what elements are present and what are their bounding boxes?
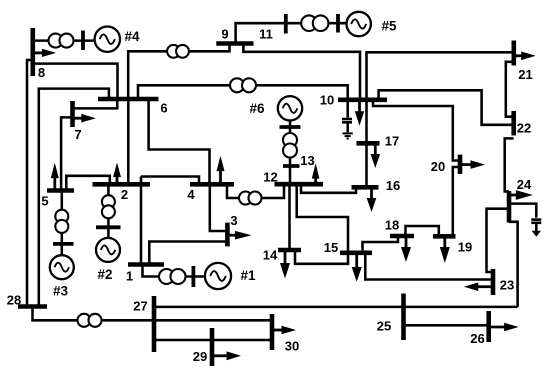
generator #4 [95, 27, 140, 52]
wire 10-17 [365, 100, 368, 144]
svg-text:#3: #3 [53, 284, 69, 299]
load arrow bus 29 [212, 351, 241, 360]
bus 17 [357, 134, 400, 149]
wire 2 to generator 2 [107, 184, 110, 238]
bus 4 [187, 184, 234, 202]
svg-text:17: 17 [385, 134, 399, 149]
svg-text:20: 20 [431, 159, 445, 174]
wire 25-27 [154, 306, 518, 309]
load arrow bus 21 [514, 52, 536, 61]
load arrow bus 30 [272, 326, 296, 335]
wire 27-29 [154, 339, 212, 342]
svg-text:3: 3 [230, 213, 237, 228]
ground bus 10 [343, 133, 353, 138]
svg-text:26: 26 [470, 331, 484, 346]
load arrow bus 24 [509, 190, 533, 200]
wire 9-10 [243, 44, 360, 100]
bus 27 [133, 296, 154, 352]
bus 9 [216, 27, 253, 44]
bus 22 [514, 111, 532, 136]
wire 6-7 [73, 99, 118, 108]
generator #6 [249, 96, 302, 120]
bus 10 [320, 93, 387, 108]
bus 18 [385, 218, 414, 236]
wire 22-24 [505, 138, 514, 191]
svg-text:9: 9 [221, 27, 228, 42]
wire 10-22 [379, 90, 514, 125]
transformer 5-#3 [53, 210, 74, 244]
svg-text:13: 13 [300, 153, 314, 168]
svg-text:29: 29 [193, 349, 207, 364]
bus 15 [324, 240, 372, 255]
bus 12 [263, 170, 323, 185]
load arrow bus 16 [367, 189, 377, 212]
wire 24-25 [509, 222, 518, 307]
wire 1 to generator 1 [143, 265, 206, 277]
svg-text:6: 6 [160, 101, 167, 116]
load arrow bus 2 [113, 163, 121, 184]
bus 26 [470, 311, 488, 346]
svg-text:11: 11 [259, 27, 273, 42]
transformer 13-#6 [280, 127, 301, 158]
generator #2 [96, 238, 120, 282]
svg-text:30: 30 [285, 339, 299, 354]
wire 3-4 [210, 184, 228, 231]
wire 8 to generator 4 [33, 39, 95, 42]
load arrow bus 26 [489, 323, 519, 332]
load arrow bus 10 [355, 101, 364, 126]
transformer 4-12 [239, 192, 262, 205]
load arrow bus 17 [371, 145, 381, 168]
wire 12-16 [301, 186, 356, 193]
transformer 6-10 [230, 78, 256, 92]
wire 1-2 [140, 177, 143, 265]
load arrow bus 4 [217, 156, 225, 183]
wire 18-19 [406, 226, 439, 236]
shunt capacitor bus 10 [342, 100, 352, 133]
bus 28 [7, 293, 47, 308]
wire 21-22 [506, 62, 514, 117]
bus 7 [73, 101, 82, 142]
bus 14 [263, 248, 301, 263]
wire 27-30 [154, 319, 272, 322]
bus 24 [509, 177, 532, 222]
shunt capacitor bus 24 [509, 204, 541, 231]
wire 28-27 [33, 307, 155, 321]
wire 8-28 [27, 60, 33, 307]
svg-text:21: 21 [518, 67, 532, 82]
load arrow bus 20 [460, 160, 485, 169]
svg-text:#6: #6 [249, 101, 265, 116]
bus 29 [193, 328, 212, 366]
wire 6-28 [39, 89, 109, 307]
load arrow bus 3 [227, 231, 251, 240]
svg-text:#4: #4 [124, 29, 140, 44]
wire 19-20 [453, 167, 460, 236]
wire 1-3 [149, 242, 227, 265]
bus 6 [98, 99, 168, 116]
wire 10-20 [373, 100, 460, 161]
svg-text:8: 8 [38, 65, 45, 80]
transformer 8-#4 [49, 31, 84, 51]
svg-text:27: 27 [133, 299, 147, 314]
bus 1 [126, 265, 164, 284]
wire 5 to generator 3 [61, 191, 64, 256]
wire 23-24 [487, 209, 510, 272]
wire 6-8 [33, 64, 118, 99]
svg-text:28: 28 [7, 293, 21, 308]
load arrow bus 7 [73, 114, 96, 123]
wire 5-7 [61, 117, 72, 190]
bus 5 [41, 191, 74, 209]
wire 15-18 [363, 236, 399, 253]
transformer 28-27 [78, 314, 102, 327]
load arrow bus 12 [312, 163, 320, 183]
svg-text:10: 10 [320, 93, 334, 108]
wire 4-6 [149, 99, 210, 184]
svg-text:14: 14 [263, 248, 278, 263]
wire 16-17 [365, 143, 368, 187]
svg-text:22: 22 [517, 121, 531, 136]
bus 19 [433, 236, 472, 254]
wire 29-30 [212, 339, 272, 342]
load arrow bus 8 [33, 49, 56, 57]
wire 12-15 [297, 184, 348, 253]
wire 6-9 [128, 44, 229, 100]
generator #1 [205, 263, 256, 289]
svg-text:2: 2 [121, 187, 128, 202]
wire 4-12 [227, 184, 284, 198]
svg-text:4: 4 [187, 187, 195, 202]
bus 8 [33, 28, 45, 80]
ground bus 24 [532, 231, 541, 237]
transformer 9-11 [301, 14, 338, 33]
load arrow bus 5 [51, 163, 59, 190]
wire 6-10 [138, 85, 348, 100]
load arrow bus 15 [352, 255, 362, 282]
wire 2-5 [66, 176, 110, 191]
bus 23 [493, 269, 514, 295]
svg-text:1: 1 [126, 269, 133, 284]
bus 16 [352, 178, 401, 193]
svg-text:23: 23 [500, 278, 514, 293]
svg-text:#5: #5 [381, 19, 397, 34]
wire 10-21 [367, 52, 514, 100]
transformer 2-#2 [96, 195, 121, 227]
wire 14-15 [295, 250, 348, 264]
generator #5 [347, 12, 397, 36]
svg-text:19: 19 [458, 240, 472, 255]
bus 20 [431, 155, 460, 175]
transformer 6-9 [167, 45, 189, 58]
load arrow bus 14 [280, 252, 290, 279]
bus 2 [93, 184, 151, 202]
svg-text:#2: #2 [97, 267, 112, 282]
svg-text:15: 15 [324, 240, 338, 255]
wire 2-6 [127, 99, 130, 184]
svg-text:24: 24 [517, 177, 532, 192]
wire 15-23 [365, 253, 493, 280]
svg-text:18: 18 [385, 218, 399, 233]
svg-text:16: 16 [386, 178, 400, 193]
generator #3 [50, 255, 74, 298]
load arrow bus 23 [464, 282, 493, 291]
load arrow bus 19 [440, 238, 450, 263]
wire 12-13 to generator 6 [289, 121, 292, 184]
bus 21 [514, 41, 533, 83]
svg-text:7: 7 [74, 127, 81, 142]
bus 25 [377, 294, 404, 341]
bus 30 [272, 314, 299, 354]
wire 12-14 [288, 184, 291, 250]
bus 13 [283, 153, 315, 168]
bus 3 [227, 213, 237, 246]
bus 11 [259, 14, 286, 42]
wire 25-26 [404, 324, 489, 327]
wire 9-11 [236, 23, 350, 43]
wire 2-4 [141, 177, 199, 185]
svg-text:5: 5 [41, 194, 48, 209]
svg-text:12: 12 [263, 170, 277, 185]
transformer 1-#1 [159, 266, 193, 287]
load arrow bus 18 [401, 238, 411, 263]
svg-text:25: 25 [377, 319, 391, 334]
svg-text:#1: #1 [240, 268, 256, 283]
